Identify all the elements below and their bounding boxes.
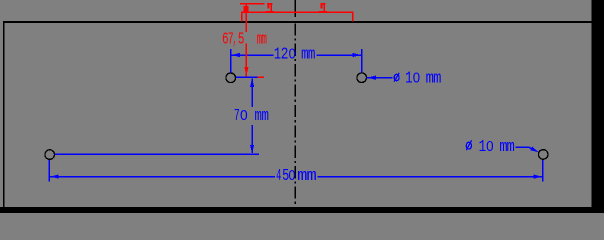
- svg-text:m: m: [433, 68, 441, 88]
- svg-text:m: m: [261, 31, 267, 49]
- svg-text:,: ,: [233, 30, 237, 49]
- svg-text:1: 1: [479, 138, 487, 156]
- svg-text:m: m: [261, 108, 268, 126]
- svg-text:4: 4: [276, 166, 281, 185]
- svg-text:m: m: [507, 137, 515, 157]
- svg-text:7: 7: [234, 108, 240, 126]
- svg-text:0: 0: [240, 108, 248, 125]
- svg-text:m: m: [308, 46, 316, 64]
- svg-text:1: 1: [405, 70, 413, 88]
- svg-text:0: 0: [413, 69, 420, 86]
- svg-text:0: 0: [289, 45, 296, 62]
- svg-text:2: 2: [281, 46, 289, 64]
- svg-text:5: 5: [238, 31, 245, 50]
- svg-text:0: 0: [288, 166, 295, 184]
- svg-text:m: m: [307, 167, 317, 186]
- svg-text:0: 0: [486, 138, 493, 155]
